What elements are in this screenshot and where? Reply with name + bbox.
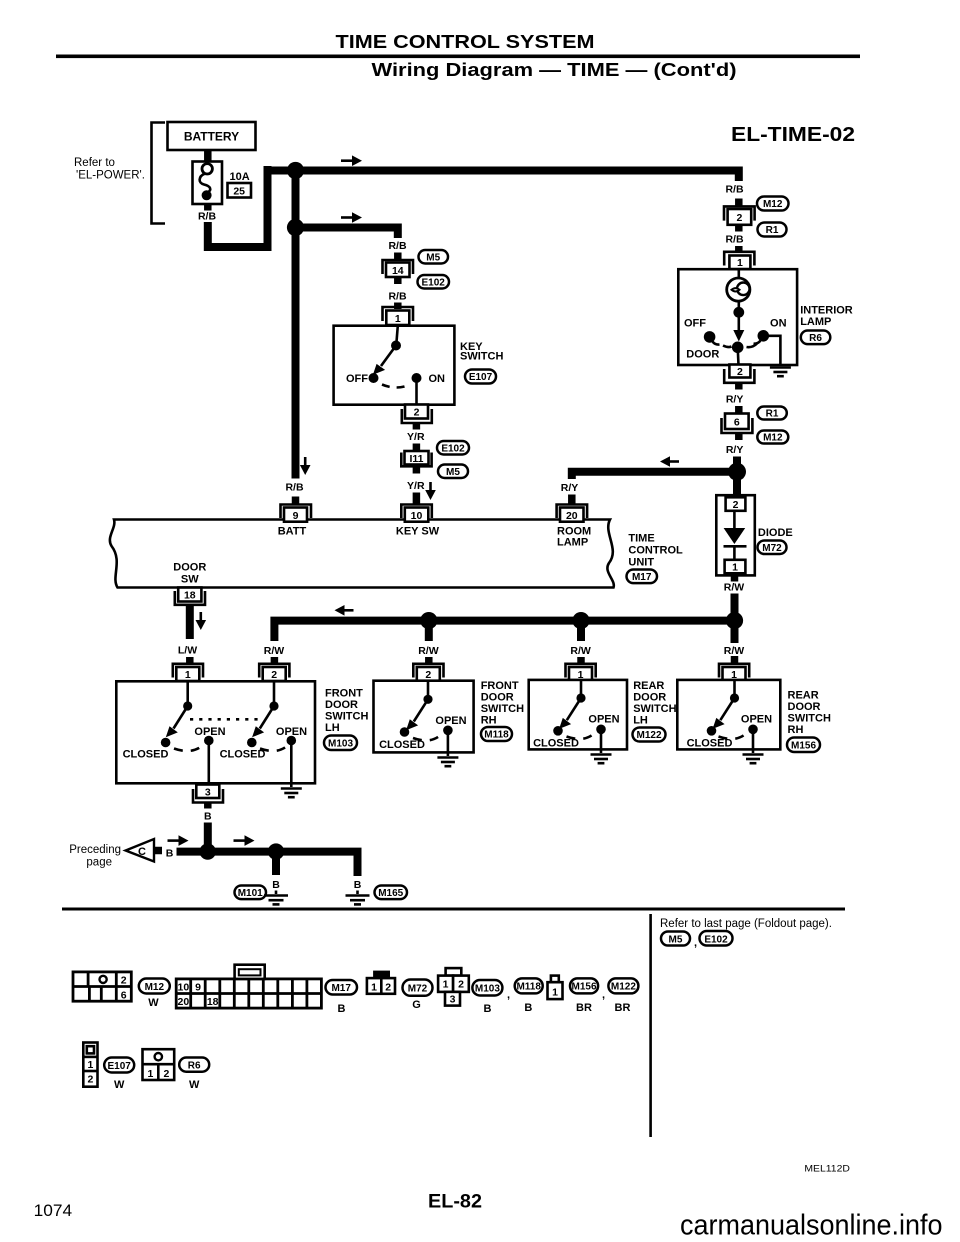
svg-text:BR: BR — [615, 1002, 631, 1014]
svg-text:OPEN: OPEN — [741, 714, 772, 726]
connector ref M5 — [438, 465, 468, 479]
key switch pin 1 — [383, 307, 414, 321]
svg-text:2: 2 — [121, 975, 127, 987]
svg-text:L/W: L/W — [178, 645, 197, 657]
svg-text:SWITCH: SWITCH — [633, 703, 676, 715]
bulb — [727, 278, 750, 301]
LH pin 3 — [196, 785, 219, 799]
wire diode to R/W junction — [731, 594, 739, 615]
connector ref M122 legend — [608, 978, 638, 993]
svg-text:M118: M118 — [484, 730, 509, 741]
rear RH pin 1 — [719, 664, 749, 678]
arrow left on R/W bus — [345, 609, 354, 612]
diode symbol — [733, 511, 736, 529]
wire stub to connector 2 — [735, 199, 743, 207]
preceding page triangle C — [126, 839, 154, 862]
svg-text:INTERIOR: INTERIOR — [800, 305, 853, 317]
battery box — [168, 122, 256, 150]
svg-text:3: 3 — [450, 994, 456, 1006]
arrow down beside R/B riser — [304, 457, 307, 466]
svg-text:M122: M122 — [611, 982, 636, 993]
ground M165 — [356, 891, 359, 895]
stub from triangle — [154, 847, 162, 855]
svg-text:1: 1 — [371, 982, 377, 994]
connector ref M118 — [481, 727, 512, 741]
svg-text:,: , — [694, 937, 697, 949]
wire stub below I11 — [413, 467, 421, 474]
connector ref M156 legend — [570, 978, 598, 993]
wire stub below connector 14 — [394, 277, 402, 284]
connector ref M5 legend — [661, 932, 690, 946]
connector 6 R1/M12 — [725, 414, 749, 430]
ground front LH — [281, 787, 302, 790]
dashed arc B — [260, 746, 287, 751]
connector ref M118 legend — [515, 978, 543, 993]
dashed arc — [567, 734, 594, 739]
OFF contact — [704, 331, 716, 343]
svg-text:Wiring Diagram — TIME — (Cont': Wiring Diagram — TIME — (Cont'd) — [372, 60, 737, 80]
connector ref M122 — [633, 728, 666, 742]
svg-text:Y/R: Y/R — [407, 480, 425, 492]
connector face E107 — [83, 1043, 97, 1087]
svg-text:18: 18 — [207, 996, 219, 1008]
svg-text:B: B — [338, 1003, 346, 1015]
ON contact — [758, 330, 770, 342]
svg-text:BATT: BATT — [278, 526, 307, 538]
svg-text:25: 25 — [233, 186, 245, 198]
connector face R6 — [143, 1049, 175, 1080]
connector ref M5 — [419, 250, 449, 264]
svg-text:KEY SW: KEY SW — [396, 526, 440, 538]
svg-text:R/B: R/B — [388, 291, 407, 303]
wire fuse to bus riser — [208, 166, 268, 247]
svg-text:OFF: OFF — [346, 373, 368, 385]
svg-text:R/W: R/W — [724, 582, 745, 594]
svg-text:1: 1 — [732, 562, 738, 574]
svg-text:DOOR: DOOR — [633, 692, 666, 704]
svg-text:DOOR: DOOR — [481, 692, 514, 704]
svg-text:Refer to last page (Foldout pa: Refer to last page (Foldout page). — [660, 918, 832, 930]
DOOR contact — [732, 342, 744, 354]
svg-text:TIME: TIME — [628, 533, 654, 545]
svg-text:CLOSED: CLOSED — [220, 749, 266, 761]
interior lamp pin 2 — [729, 365, 750, 378]
svg-text:3: 3 — [205, 787, 211, 799]
rear LH switch wire — [580, 680, 583, 694]
svg-text:1: 1 — [395, 313, 401, 325]
wire stub below pin 2 — [413, 424, 421, 430]
svg-text:18: 18 — [184, 590, 196, 602]
svg-text:R/W: R/W — [264, 645, 285, 657]
svg-text:9: 9 — [293, 510, 299, 522]
rear door switch LH box M122 — [529, 680, 627, 750]
svg-text:E107: E107 — [469, 372, 493, 383]
arrow right on second bus — [341, 216, 353, 219]
RH open contact — [443, 726, 453, 736]
wire open to ground — [600, 729, 603, 753]
connector I11 E102/M5 — [405, 451, 429, 465]
dashed arc — [413, 736, 440, 741]
svg-text:SWITCH: SWITCH — [788, 713, 831, 725]
svg-text:UNIT: UNIT — [628, 557, 654, 569]
wire stub to connector 14 — [394, 253, 402, 260]
front LH pin 1 — [173, 664, 203, 678]
svg-text:1: 1 — [443, 979, 449, 991]
LH switch A wire — [186, 681, 189, 702]
connector ref M101 — [235, 886, 267, 900]
svg-text:2: 2 — [733, 499, 739, 511]
svg-text:1: 1 — [87, 1059, 93, 1071]
svg-text:BATTERY: BATTERY — [184, 130, 239, 144]
wire ON contact to pin 2 — [415, 378, 418, 405]
R/W door switch bus — [274, 621, 734, 641]
svg-text:carmanualsonline.info: carmanualsonline.info — [680, 1210, 943, 1242]
svg-text:R/Y: R/Y — [726, 394, 744, 406]
svg-text:E107: E107 — [108, 1061, 132, 1072]
svg-text:B: B — [354, 879, 362, 891]
separator rule — [62, 908, 845, 911]
diode pin 2 — [726, 497, 746, 511]
svg-text:R1: R1 — [766, 225, 779, 236]
svg-text:1: 1 — [737, 257, 743, 269]
svg-text:SWITCH: SWITCH — [460, 351, 503, 363]
LH switch B closed contact — [247, 738, 257, 748]
interior lamp pin 1 — [724, 252, 754, 266]
junction node R/Y — [728, 463, 746, 481]
svg-text:TIME CONTROL SYSTEM: TIME CONTROL SYSTEM — [336, 32, 595, 52]
svg-text:M12: M12 — [763, 433, 783, 444]
svg-text:M5: M5 — [446, 467, 460, 478]
connector ref M12 — [757, 431, 788, 444]
arrow down beside Y/R — [429, 482, 432, 491]
connector ref E102 — [418, 275, 450, 289]
mechanical link dotted — [190, 718, 262, 721]
rear LH closed contact — [553, 726, 563, 736]
svg-text:1: 1 — [147, 1068, 153, 1080]
lamp switch pivot — [733, 307, 744, 318]
fuse FL 10A 25 — [193, 162, 223, 205]
key switch pivot — [391, 341, 401, 351]
svg-text:10: 10 — [411, 510, 423, 522]
svg-text:6: 6 — [734, 417, 740, 429]
arrow down beside L/W — [200, 612, 203, 621]
wire stub below connector 6 — [735, 434, 743, 441]
TCU pin 10 KEY SW — [401, 505, 432, 519]
svg-text:E102: E102 — [704, 934, 728, 945]
svg-text:2: 2 — [458, 979, 464, 991]
dashed contact arc — [382, 385, 411, 388]
wire junction to diode — [733, 472, 741, 494]
svg-text:REAR: REAR — [633, 680, 664, 692]
wire fuse down — [204, 204, 212, 211]
svg-text:R/B: R/B — [725, 234, 744, 246]
rear RH closed contact — [707, 726, 717, 736]
junction node battery bus — [287, 162, 304, 179]
svg-text:M5: M5 — [669, 934, 683, 945]
svg-text:FRONT: FRONT — [325, 688, 363, 700]
svg-text:ON: ON — [770, 318, 787, 330]
wire stub rear RH — [731, 624, 739, 643]
svg-text:LH: LH — [325, 722, 340, 734]
LH switch A arm — [174, 706, 188, 729]
front door switch RH box M118 — [374, 681, 474, 753]
svg-text:9: 9 — [195, 982, 201, 994]
LH switch B wire — [273, 681, 276, 702]
ground front RH — [437, 756, 458, 759]
svg-text:M5: M5 — [426, 252, 440, 263]
connector ref E102 — [437, 441, 469, 455]
connector ref M12 — [757, 197, 789, 211]
svg-text:2: 2 — [271, 669, 277, 681]
connector face 1 — [551, 976, 559, 983]
wire stub to door switch pin 1 — [186, 657, 194, 664]
arrow right on B bus 2 — [234, 839, 246, 842]
svg-text:B: B — [204, 811, 212, 823]
wire stub below connector 2 — [735, 225, 743, 232]
svg-text:REAR: REAR — [788, 690, 819, 702]
RH switch arm — [414, 699, 428, 721]
wire open B to ground — [290, 741, 293, 788]
key switch pin 2 — [405, 405, 428, 419]
rear RH arm — [720, 698, 734, 720]
svg-text:SWITCH: SWITCH — [325, 711, 368, 723]
svg-text:LAMP: LAMP — [800, 316, 831, 328]
svg-text:RH: RH — [481, 715, 497, 727]
svg-text:CLOSED: CLOSED — [123, 749, 169, 761]
svg-text:M118: M118 — [516, 982, 541, 993]
LH switch B open contact — [287, 736, 297, 746]
svg-text:W: W — [189, 1079, 200, 1091]
wire stub to key switch pin 1 — [394, 303, 402, 310]
svg-text:R/B: R/B — [198, 211, 217, 223]
svg-text:R/B: R/B — [285, 482, 304, 494]
wire bulb to pivot — [737, 300, 740, 308]
RH closed contact — [400, 727, 410, 737]
rear LH open contact — [596, 725, 606, 735]
svg-text:DOOR: DOOR — [686, 349, 719, 361]
rear door switch RH box M156 — [677, 680, 780, 750]
svg-text:M72: M72 — [408, 984, 428, 995]
svg-text:M156: M156 — [571, 982, 596, 993]
svg-text:2: 2 — [87, 1074, 93, 1086]
wire stub to pin 9 — [292, 497, 300, 505]
svg-text:M156: M156 — [791, 740, 816, 751]
svg-text:LH: LH — [633, 715, 648, 727]
svg-text:W: W — [114, 1079, 125, 1091]
svg-text:R/W: R/W — [724, 645, 745, 657]
lamp switch arm arrow down — [737, 312, 740, 331]
svg-text:2: 2 — [736, 212, 742, 224]
ground M101 — [275, 891, 278, 895]
svg-text:G: G — [412, 999, 421, 1011]
connector 2 M12/R1 — [724, 206, 755, 220]
svg-text:R6: R6 — [188, 1060, 201, 1071]
key switch OFF contact — [369, 373, 379, 383]
connector ref M156 — [787, 738, 820, 753]
rear LH pivot — [576, 693, 585, 702]
key switch box E107 — [334, 326, 455, 405]
svg-text:LAMP: LAMP — [557, 537, 588, 549]
svg-text:20: 20 — [566, 510, 578, 522]
svg-text:M12: M12 — [145, 982, 165, 993]
wire stub rear LH — [577, 624, 585, 641]
connector face M103 — [446, 968, 462, 976]
wire top bus to interior lamp — [264, 171, 739, 182]
svg-text:BR: BR — [576, 1002, 592, 1014]
wire stub to connector 6 — [735, 406, 743, 414]
LH switch A closed contact — [161, 738, 171, 748]
junction node B1 — [200, 843, 216, 859]
svg-text:,: , — [507, 989, 510, 1001]
wire open A to pin 3 — [208, 741, 211, 786]
svg-text:page: page — [86, 857, 112, 869]
svg-text:M72: M72 — [762, 543, 782, 554]
svg-text:'EL-POWER'.: 'EL-POWER'. — [76, 170, 145, 182]
connector ref E102 legend — [700, 931, 733, 946]
rear LH arm — [567, 698, 581, 720]
wire DOOR contact to pin 2 — [736, 347, 739, 365]
wire B to ground bus — [204, 823, 212, 848]
svg-text:E102: E102 — [441, 443, 465, 454]
svg-text:RH: RH — [788, 724, 804, 736]
connector ref M72 — [758, 541, 787, 555]
svg-text:B: B — [272, 879, 280, 891]
svg-text:EL-TIME-02: EL-TIME-02 — [731, 124, 855, 146]
svg-text:C: C — [138, 846, 146, 858]
LH switch B pivot — [269, 701, 278, 710]
connector face M12 — [73, 972, 131, 1001]
svg-text:Refer to: Refer to — [74, 157, 115, 169]
svg-text:R/B: R/B — [725, 184, 744, 196]
wire stubs to door switch pins — [271, 657, 279, 664]
svg-text:OPEN: OPEN — [588, 714, 619, 726]
svg-text:2: 2 — [737, 366, 743, 378]
LH switch A open contact — [204, 736, 214, 746]
wire stub below lamp pin 2 — [735, 383, 743, 390]
wire main riser down to pin 9 — [292, 171, 300, 479]
rear LH pin 1 — [566, 664, 596, 678]
svg-text:B: B — [484, 1003, 492, 1015]
wire open to ground — [752, 729, 755, 753]
junction node rear RH — [726, 612, 743, 629]
connector 14 M5/E102 — [383, 260, 414, 274]
wire stub to pin 10 — [413, 493, 421, 505]
svg-text:R/W: R/W — [418, 645, 439, 657]
key switch arm with arrow — [381, 346, 396, 367]
connector ref R1 — [757, 407, 787, 420]
svg-text:SW: SW — [181, 574, 199, 586]
svg-text:M122: M122 — [636, 730, 661, 741]
svg-text:DOOR: DOOR — [788, 701, 821, 713]
svg-text:14: 14 — [392, 265, 404, 277]
svg-text:10: 10 — [178, 982, 190, 994]
key switch ON contact — [412, 373, 422, 383]
svg-text:1074: 1074 — [34, 1201, 73, 1220]
vertical divider — [649, 914, 652, 1137]
arrow left on R/Y bus — [670, 460, 679, 463]
svg-text:M103: M103 — [328, 738, 353, 749]
svg-text:,: , — [602, 989, 605, 1001]
dashed contact arcs — [723, 346, 732, 348]
arrow right on B bus — [168, 839, 180, 842]
TCU pin 20 ROOM LAMP — [557, 505, 588, 519]
ground bus wire — [177, 852, 358, 876]
svg-text:M101: M101 — [238, 888, 263, 899]
LH switch B arm — [260, 706, 274, 729]
connector face M72 — [373, 971, 390, 980]
svg-text:B: B — [524, 1002, 532, 1014]
wire stub below diode — [731, 575, 739, 581]
ground rear RH — [743, 753, 764, 756]
svg-text:OPEN: OPEN — [435, 715, 466, 727]
svg-text:M103: M103 — [475, 983, 500, 994]
wire open to ground — [447, 730, 450, 756]
front RH pin 2 — [413, 664, 443, 678]
connector face M17 — [176, 965, 321, 1008]
svg-text:10A: 10A — [230, 171, 250, 183]
wire to R/Y junction — [733, 457, 741, 481]
svg-text:SWITCH: SWITCH — [481, 703, 524, 715]
wire ON contact to ground — [763, 336, 780, 366]
dashed arc — [719, 734, 746, 739]
junction node front RH — [420, 612, 437, 629]
svg-text:6: 6 — [121, 990, 127, 1002]
wire below pin 18 — [186, 605, 194, 639]
wire stub to lamp pin 1 — [735, 246, 743, 252]
RH switch pivot — [423, 695, 432, 704]
wire pin1 to pivot — [397, 326, 398, 342]
rear RH switch wire — [733, 680, 736, 694]
wire second bus to key switch — [296, 228, 398, 239]
svg-text:2: 2 — [425, 669, 431, 681]
svg-text:2: 2 — [414, 407, 420, 419]
svg-text:M17: M17 — [331, 983, 351, 994]
refer-to bracket — [152, 123, 166, 224]
connector ref M17 — [627, 570, 658, 584]
connector ref R6 — [801, 331, 831, 345]
svg-text:2: 2 — [163, 1068, 169, 1080]
svg-text:2: 2 — [385, 982, 391, 994]
connector ref R1 — [758, 223, 787, 237]
svg-text:DOOR: DOOR — [325, 699, 358, 711]
front LH pin 2 — [259, 664, 289, 678]
svg-text:R1: R1 — [766, 409, 779, 420]
wire pin1 to bulb — [737, 269, 740, 279]
svg-text:M17: M17 — [632, 572, 652, 583]
svg-text:Preceding: Preceding — [69, 844, 121, 856]
diode pin 1 — [725, 560, 746, 574]
svg-text:R/W: R/W — [570, 645, 591, 657]
svg-text:20: 20 — [178, 996, 190, 1008]
wire below B2 node — [272, 852, 280, 875]
rear RH pivot — [730, 693, 739, 702]
connector ref M103 — [324, 736, 357, 751]
svg-text:DIODE: DIODE — [758, 527, 793, 539]
svg-text:W: W — [148, 997, 159, 1009]
TCU pin 18 DOOR SW — [178, 588, 201, 602]
svg-text:R/B: R/B — [388, 240, 407, 252]
junction node rear LH — [572, 612, 589, 629]
svg-text:R/Y: R/Y — [726, 444, 744, 456]
RH switch wire — [427, 681, 430, 695]
interior lamp box R6 — [678, 269, 797, 365]
svg-text:R6: R6 — [809, 333, 822, 344]
front door switch LH box M103 — [116, 681, 315, 783]
R/Y bus to room lamp pin — [572, 472, 737, 479]
svg-text:ON: ON — [429, 373, 446, 385]
svg-text:Y/R: Y/R — [407, 431, 425, 443]
svg-text:R/Y: R/Y — [561, 482, 579, 494]
